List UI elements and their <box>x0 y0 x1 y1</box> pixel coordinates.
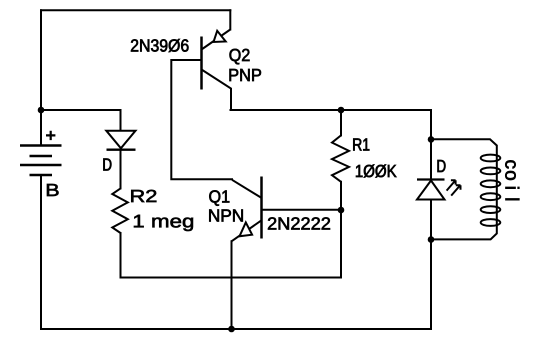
transistor Q2 base bar <box>200 37 203 90</box>
node Q1 emitter junction <box>228 326 235 333</box>
coil loop 5 <box>481 206 501 213</box>
node battery branch junction <box>38 107 45 114</box>
label 100K <box>356 165 397 178</box>
transistor Q1 emitter <box>232 220 262 241</box>
node LED top junction <box>428 136 435 143</box>
coil loop 4 <box>481 193 501 200</box>
label Q2 <box>230 49 250 65</box>
label Q1 <box>209 190 229 206</box>
wire bottom rail <box>41 328 431 330</box>
transistor Q1 base bar <box>260 177 263 239</box>
wire Q1 emitter down <box>231 241 233 329</box>
wire LED anode <box>430 139 432 179</box>
label 2N2222 <box>268 217 330 229</box>
resistor R1 <box>332 135 349 181</box>
wire Q2 emitter stub <box>229 10 231 29</box>
coil wires <box>431 139 497 239</box>
coil loop 1 <box>481 155 501 162</box>
resistor R2 <box>112 188 128 233</box>
coil loop 2 <box>481 168 501 175</box>
LED D triangle <box>417 181 445 200</box>
transistor Q2 emitter arrow <box>214 31 226 42</box>
battery plus sign <box>46 131 55 140</box>
label 2N3906 <box>131 39 189 52</box>
transistor Q2 collector <box>202 70 232 111</box>
coil loop 6 <box>481 219 501 226</box>
node R1 top junction <box>338 107 345 114</box>
transistor Q1 emitter arrow <box>240 222 253 236</box>
label R1 <box>353 139 369 151</box>
label B battery <box>47 184 59 196</box>
wire R1 bottom <box>340 182 342 210</box>
wire collector rail <box>231 110 432 139</box>
label PNP <box>230 69 262 81</box>
LED arrow 2 <box>451 185 460 195</box>
wire Q1 base to node <box>262 209 342 211</box>
transistor Q1 collector <box>232 180 262 198</box>
wire battery node to diode D <box>41 109 121 111</box>
wire left rail upper <box>40 10 42 145</box>
node LED bottom junction <box>428 236 435 243</box>
label R2 <box>131 190 156 202</box>
label D led <box>438 160 446 172</box>
wire diode D cathode to R2 <box>120 151 122 188</box>
wire diode D anode <box>120 110 122 131</box>
wire left rail lower <box>40 175 42 329</box>
battery B <box>20 146 62 176</box>
wire LED cathode to bottom rail <box>430 200 432 330</box>
LED arrow 1 <box>447 180 456 190</box>
wire R2 bottom to R1 node <box>121 210 342 278</box>
label D diode <box>103 159 111 171</box>
label 1 meg <box>134 215 193 231</box>
label NPN <box>209 210 243 222</box>
label coil <box>505 160 519 200</box>
wire R1 top <box>340 110 342 135</box>
node Q1 base junction <box>338 207 345 214</box>
wire top rail <box>41 9 230 11</box>
LED D cathode bar <box>417 178 445 180</box>
coil loop 3 <box>481 180 501 187</box>
transistor Q2 emitter <box>202 30 231 50</box>
wire Q2 base to Q1 collector <box>171 60 232 179</box>
diode D left <box>106 131 135 150</box>
